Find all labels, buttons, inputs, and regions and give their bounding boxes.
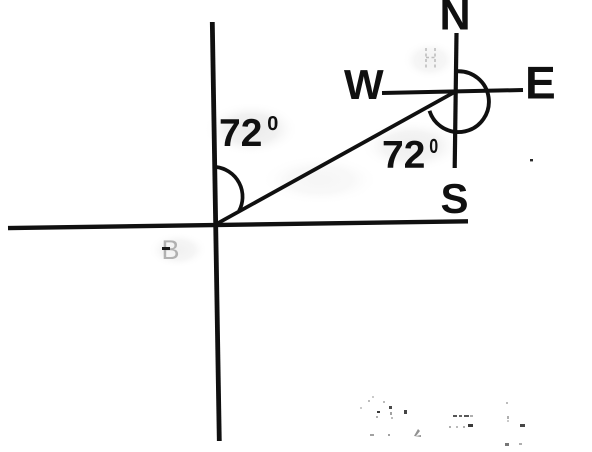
faint smudges bottom [360, 396, 525, 446]
speck [530, 159, 533, 161]
label S [442, 184, 467, 214]
node A faint label [426, 48, 435, 70]
label 72 deg at B [221, 119, 261, 146]
label N [442, 0, 467, 30]
wire diagonal line B to A [216, 91, 456, 224]
compass horizontal line W-E at A [382, 90, 523, 93]
label W [344, 70, 384, 99]
compass vertical line N-S at A [455, 33, 457, 168]
bearing arc at A [430, 71, 489, 132]
angle arc at B [216, 167, 243, 211]
horizontal line through B (left cross, west-east) [8, 221, 468, 228]
vertical line through B (left cross, north-south) [212, 22, 219, 441]
label E [528, 67, 554, 99]
node B faint label [164, 240, 178, 259]
label 72 deg at A [384, 141, 424, 168]
scan noise washes (decorative) [203, 102, 299, 156]
